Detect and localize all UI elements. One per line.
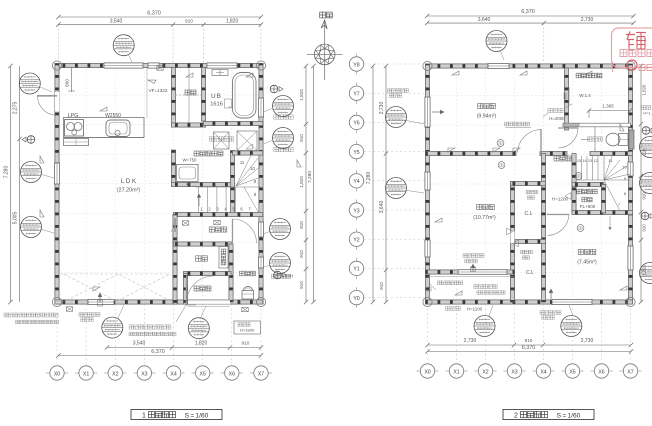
svg-text:800: 800 bbox=[65, 79, 70, 87]
dim 800 kitchen bbox=[65, 68, 76, 92]
plan1 porch floor opening bbox=[188, 300, 230, 307]
plan2 air vent room2 bbox=[540, 289, 561, 319]
svg-text:X6: X6 bbox=[598, 369, 604, 375]
plan2 room1 door opening bbox=[507, 228, 519, 247]
plan2 right wall dark window bbox=[629, 130, 634, 149]
plan1 balcony-above dashed cross bbox=[60, 274, 171, 302]
svg-text:1,820: 1,820 bbox=[642, 84, 647, 96]
plan1 kitchen fridge line bbox=[146, 68, 148, 118]
vent sym right bottom bbox=[274, 271, 293, 279]
plan2 bottom window room2 bbox=[552, 299, 592, 304]
plan1 door mark d bbox=[242, 307, 248, 311]
annotation balloon plan1 top bbox=[113, 35, 134, 56]
svg-text:2,730: 2,730 bbox=[581, 17, 594, 23]
label hall1 bbox=[209, 227, 227, 232]
plan2 circled key room2 bbox=[577, 225, 584, 232]
svg-text:S = 1/60: S = 1/60 bbox=[185, 412, 209, 419]
svg-text:ø: ø bbox=[186, 181, 189, 186]
svg-text:X2: X2 bbox=[112, 371, 118, 377]
svg-text:X5: X5 bbox=[569, 369, 575, 375]
label CL upper bbox=[524, 211, 532, 217]
plan2 stair treads bbox=[576, 156, 630, 211]
svg-text:H=1100: H=1100 bbox=[467, 307, 483, 312]
svg-text:910: 910 bbox=[299, 221, 304, 229]
plan2 stair closet walls bbox=[572, 182, 606, 213]
label closet tiny upper bbox=[526, 190, 538, 199]
plan2 right window room2 bbox=[628, 246, 633, 270]
plan2 left window room3 bbox=[425, 97, 430, 127]
svg-text:LPG: LPG bbox=[68, 113, 79, 119]
vent triangles plan1 bbox=[40, 73, 301, 291]
plan2 X grid bubbles bbox=[417, 304, 642, 378]
plan1 stairs treads bbox=[196, 154, 261, 214]
plan1 top dimensions bbox=[56, 11, 263, 64]
plan1 entrance-hall wall bbox=[174, 242, 233, 246]
plan1 bottom-right grid corner circle bbox=[256, 297, 265, 306]
label joubu-R bbox=[234, 321, 261, 334]
label room1 bbox=[473, 204, 496, 221]
plan2 left window mid bbox=[425, 172, 430, 190]
plan2 stair down arrow bbox=[609, 216, 612, 230]
plan1 leader line porch bbox=[176, 305, 196, 322]
svg-text:C.L: C.L bbox=[526, 270, 534, 276]
label menkoshi 1 bbox=[274, 115, 293, 119]
dim 900 room3 bbox=[563, 87, 570, 105]
plan1 UB left wall bbox=[201, 68, 205, 122]
annotation balloon plan1 right 2 bbox=[273, 128, 294, 149]
svg-text:X4: X4 bbox=[540, 369, 546, 375]
svg-text:X1: X1 bbox=[453, 369, 459, 375]
plan1 kitchen counter bbox=[64, 118, 145, 138]
svg-text:Y4: Y4 bbox=[353, 179, 359, 185]
svg-text:3,640: 3,640 bbox=[478, 17, 491, 23]
plan2 toilet left wall bbox=[594, 127, 596, 151]
label entrance bbox=[196, 256, 208, 261]
annotation balloon plan1 right 4 bbox=[270, 253, 291, 274]
plan1 tiled box bbox=[237, 131, 257, 151]
svg-text:H=1..: H=1.. bbox=[643, 112, 652, 116]
plan2 closet col top bbox=[510, 181, 545, 185]
plan2 top-right grid corner circle bbox=[626, 61, 635, 70]
svg-text:6,370: 6,370 bbox=[147, 11, 161, 17]
plan1 stair numbers bbox=[200, 160, 257, 212]
svg-text:910: 910 bbox=[379, 282, 384, 290]
plan1 left dimensions bbox=[4, 64, 22, 304]
annotation balloon plan2 right 1 bbox=[640, 137, 652, 158]
plan2 bottom-right grid corner circle bbox=[626, 297, 635, 306]
plan1 top wall bbox=[55, 63, 263, 67]
svg-text:Y8: Y8 bbox=[353, 62, 359, 68]
vent sym right top bbox=[270, 85, 283, 93]
plan2 right wall bbox=[628, 64, 632, 304]
plan2 right window stair bbox=[628, 162, 633, 176]
svg-text:2,730: 2,730 bbox=[379, 102, 385, 115]
plan1 LPG stove bbox=[65, 120, 84, 137]
label overflow bbox=[437, 281, 462, 285]
svg-text:S = 1/60: S = 1/60 bbox=[557, 412, 581, 419]
plan1 closet bottom wall bbox=[171, 123, 205, 127]
svg-text:X2: X2 bbox=[482, 369, 488, 375]
plan1 washroom bottom wall bbox=[171, 182, 234, 186]
svg-text:2: 2 bbox=[514, 412, 518, 419]
svg-text:Y0: Y0 bbox=[353, 296, 359, 302]
plan1 right window hall bbox=[258, 222, 263, 237]
svg-text:13: 13 bbox=[588, 159, 592, 163]
svg-text:10: 10 bbox=[250, 166, 255, 171]
annotation balloon plan1 bottom 1 bbox=[102, 317, 123, 338]
plan1 hall-toilet door arc bbox=[233, 219, 257, 243]
plan2 top dimensions bbox=[425, 9, 636, 63]
label balcony guard bbox=[477, 291, 505, 295]
svg-text:7,280: 7,280 bbox=[366, 172, 372, 185]
svg-text:14: 14 bbox=[582, 159, 586, 163]
annotation balloon plan2 top bbox=[486, 31, 507, 52]
annotation balloon plan1 left 3 bbox=[21, 217, 42, 238]
svg-text:6,370: 6,370 bbox=[521, 9, 535, 15]
svg-text:Y1: Y1 bbox=[353, 267, 359, 273]
svg-text:910: 910 bbox=[242, 341, 250, 346]
svg-text:6,370: 6,370 bbox=[522, 345, 536, 351]
svg-text:12: 12 bbox=[593, 159, 597, 163]
plan1 title box bbox=[131, 410, 222, 420]
plan2 title box bbox=[503, 410, 594, 420]
plan2 balcony inner line bbox=[429, 275, 431, 300]
svg-text:X4: X4 bbox=[170, 371, 176, 377]
plan2 top wall bbox=[425, 64, 632, 68]
svg-text:Y3: Y3 bbox=[353, 208, 359, 214]
svg-text:3,540: 3,540 bbox=[133, 341, 146, 347]
svg-text:11: 11 bbox=[240, 160, 245, 165]
plan2 hanger wall bbox=[564, 68, 568, 130]
annotation balloon plan1 bottom 2 bbox=[188, 318, 209, 339]
plan1 left wall bbox=[55, 63, 59, 304]
svg-text:910: 910 bbox=[525, 338, 533, 343]
plan2 air vent room1 bbox=[463, 254, 484, 272]
plan1 X grid bubbles bbox=[46, 304, 272, 380]
plan2 stair bottom wall bbox=[572, 210, 633, 214]
floor grid lines plan 2 bbox=[428, 66, 631, 302]
label mono-iri bbox=[582, 197, 592, 202]
plan1 left wall door opening bbox=[55, 92, 59, 112]
plan2 circled key room1 bbox=[498, 162, 505, 169]
plan2 left vent arrow bbox=[432, 110, 444, 114]
svg-text:VF=1322: VF=1322 bbox=[149, 88, 168, 93]
plan2 room3 bottom wall c bbox=[590, 151, 633, 155]
annotation balloon plan2 right 3 bbox=[640, 263, 652, 284]
svg-text:910: 910 bbox=[299, 134, 304, 142]
svg-text:X0: X0 bbox=[424, 369, 430, 375]
label W2550 bbox=[105, 113, 121, 119]
label balcony waterproof bbox=[4, 313, 59, 324]
svg-text:1,820: 1,820 bbox=[195, 341, 208, 347]
label air press plan2 left bbox=[388, 89, 409, 98]
label closet bbox=[185, 90, 196, 95]
plan1 washbasin bbox=[177, 165, 199, 187]
svg-text:(7.45m²): (7.45m²) bbox=[577, 260, 597, 266]
label room3 bbox=[477, 103, 497, 119]
svg-text:910: 910 bbox=[642, 224, 647, 232]
svg-text:H=1800: H=1800 bbox=[240, 328, 255, 333]
north compass bbox=[307, 12, 343, 80]
svg-text:1,820: 1,820 bbox=[299, 89, 304, 101]
plan1 UB bottom wall bbox=[204, 121, 264, 125]
label porch bbox=[194, 286, 211, 291]
plan1 top window LDK bbox=[104, 63, 143, 68]
vent triangles plan2 bbox=[435, 71, 627, 295]
svg-text:1616: 1616 bbox=[210, 102, 222, 108]
svg-text:6,370: 6,370 bbox=[151, 349, 165, 355]
plan1 LDK-entrance wall bbox=[173, 215, 177, 305]
plan1 kitchen sink bbox=[106, 120, 130, 137]
svg-text:W2550: W2550 bbox=[105, 113, 121, 119]
plan1 vent arrow bottom bbox=[98, 293, 103, 306]
plan1 closet divider bbox=[176, 68, 202, 123]
annotation balloon plan2 bottom 1 bbox=[474, 316, 495, 337]
plan1 shoe cabinet bbox=[219, 247, 228, 269]
plan2 toilet top wall bbox=[563, 123, 631, 127]
label air press 1 bbox=[79, 313, 100, 322]
annotation balloon plan1 right 1 bbox=[273, 96, 294, 117]
plan2 toilet door arc bbox=[558, 128, 578, 148]
svg-text:X7: X7 bbox=[258, 371, 264, 377]
plan1 hall top wall bbox=[174, 212, 264, 216]
svg-text:Y6: Y6 bbox=[353, 121, 359, 127]
plan2 closet col mid bbox=[510, 239, 545, 243]
svg-text:24H: 24H bbox=[285, 274, 293, 279]
label porch waterproof bbox=[129, 325, 176, 336]
plan2 left dimensions bbox=[366, 64, 388, 304]
label FL+800 bbox=[580, 204, 596, 209]
plan1 top-right grid corner circle bbox=[256, 61, 265, 70]
plan1 right dimensions bbox=[299, 64, 316, 304]
label W-750 bbox=[182, 158, 197, 163]
plan1 top window UB bbox=[207, 63, 237, 68]
plan1 UB step bbox=[225, 99, 233, 108]
label floor hatch bbox=[209, 137, 233, 141]
plan2 room3 door arc bbox=[518, 129, 542, 154]
balloon leaders bbox=[38, 50, 573, 319]
floor grid lines plan 1 bbox=[57, 66, 261, 303]
plan1 floor hatch bbox=[214, 132, 230, 149]
svg-text:X7: X7 bbox=[627, 369, 633, 375]
label menkoshi 2 bbox=[274, 147, 293, 151]
label tarekabe bbox=[548, 108, 565, 121]
svg-text:FL+800: FL+800 bbox=[580, 204, 596, 209]
label UB 1616 bbox=[210, 93, 222, 108]
plan2 bottom dimensions bbox=[425, 338, 633, 354]
svg-text:H=1200: H=1200 bbox=[552, 197, 569, 202]
plan1 top-left grid corner circle bbox=[52, 61, 61, 70]
plan2 balcony end wall bbox=[510, 272, 514, 302]
plan2 balcony wall bbox=[425, 270, 514, 277]
plan2 top-left grid corner circle bbox=[423, 61, 432, 70]
label room2 bbox=[577, 249, 597, 265]
plan1 stair up arrow bbox=[197, 194, 201, 206]
label menkoshi 3 bbox=[271, 274, 290, 278]
plan2 room3 bottom wall a bbox=[425, 151, 516, 155]
plan1 door mark e bbox=[157, 66, 163, 70]
plan2 room3 bottom wall b bbox=[540, 151, 567, 155]
label toilet1 bbox=[240, 271, 256, 276]
plan1 right window UB bbox=[258, 98, 263, 117]
svg-text:1: 1 bbox=[142, 412, 146, 419]
plan1 right window toilet bbox=[258, 257, 263, 268]
svg-text:2,275: 2,275 bbox=[13, 102, 19, 115]
plan1 bottom dimensions bbox=[56, 341, 263, 358]
plan2 closet col right wall bbox=[541, 154, 545, 303]
plan1 left window bbox=[54, 163, 59, 184]
label hanger pipe bbox=[576, 73, 602, 78]
plan1 bottom-left grid corner circle bbox=[52, 297, 61, 306]
label closet tiny lower bbox=[521, 250, 533, 259]
plan1 porch left wall bbox=[183, 274, 187, 305]
plan1 porch top wall bbox=[184, 271, 232, 275]
plan1 bottom window LDK bbox=[88, 299, 114, 304]
plan2 left wall bbox=[425, 64, 429, 304]
svg-text:15: 15 bbox=[577, 159, 581, 163]
svg-text:5,005: 5,005 bbox=[13, 212, 19, 225]
annotation balloon plan1 left 2 bbox=[21, 162, 42, 183]
svg-text:X3: X3 bbox=[511, 369, 517, 375]
svg-text:L D K: L D K bbox=[121, 178, 137, 185]
svg-text:Y5: Y5 bbox=[353, 150, 359, 156]
svg-text:3,640: 3,640 bbox=[379, 201, 385, 214]
svg-text:X6: X6 bbox=[229, 371, 235, 377]
plan2 tarekabe leader bbox=[543, 104, 572, 117]
annotation balloon plan2 right 2 bbox=[640, 173, 652, 194]
plan1 stair left wall bbox=[230, 151, 234, 216]
svg-text:2,730: 2,730 bbox=[464, 338, 477, 344]
label joubu right edge bbox=[641, 105, 652, 115]
plan2 bottom wall bbox=[425, 300, 632, 304]
label LDK bbox=[117, 178, 141, 194]
plan1 tiled box triangle bbox=[246, 144, 253, 149]
svg-text:C.L: C.L bbox=[524, 211, 532, 217]
svg-text:900: 900 bbox=[563, 92, 568, 100]
plan1 top window small bbox=[148, 63, 159, 68]
label VF=1322 bbox=[149, 88, 168, 93]
plan1 bathtub bbox=[233, 73, 257, 119]
label balcony bbox=[474, 284, 497, 288]
svg-text:910: 910 bbox=[185, 18, 193, 23]
svg-text:(10.77m²): (10.77m²) bbox=[473, 215, 496, 221]
svg-text:X1: X1 bbox=[83, 371, 89, 377]
svg-text:2,730: 2,730 bbox=[581, 338, 594, 344]
plan1 door mark a bbox=[66, 307, 72, 311]
plan1 washroom left wall bbox=[171, 150, 175, 186]
plan2 bottom-left grid corner circle bbox=[423, 297, 432, 306]
svg-text:H=2000: H=2000 bbox=[549, 116, 565, 121]
svg-text:(9.94m²): (9.94m²) bbox=[477, 114, 497, 120]
svg-text:10: 10 bbox=[622, 165, 627, 170]
annotation balloon plan1 left 1 bbox=[19, 73, 40, 94]
plan1 bottom wall bbox=[55, 300, 263, 304]
plan2 toilet fixture bbox=[581, 133, 628, 146]
label stair-upper bbox=[577, 189, 597, 194]
svg-text:W=750: W=750 bbox=[182, 158, 197, 163]
svg-text:1,365: 1,365 bbox=[602, 104, 614, 109]
plan2 Y grid bubbles bbox=[349, 54, 425, 309]
plan2 left window room1 bbox=[425, 240, 430, 257]
plan2 top window bbox=[488, 63, 509, 68]
svg-text:X0: X0 bbox=[54, 371, 60, 377]
plan2 hall closet door bbox=[565, 193, 571, 200]
label toilet2 bbox=[587, 137, 602, 141]
svg-text:UB: UB bbox=[211, 93, 222, 100]
svg-text:(27.20m²): (27.20m²) bbox=[117, 188, 141, 194]
plan2 balcony drain bbox=[427, 283, 436, 291]
plan2 stair numbers bbox=[577, 158, 628, 207]
svg-text:W:1.4: W:1.4 bbox=[579, 93, 591, 98]
plan1 entrance-toilet wall bbox=[229, 244, 233, 302]
plan1 door mark b bbox=[182, 221, 188, 225]
svg-text:X5: X5 bbox=[200, 371, 206, 377]
plan1 LDK door mark bbox=[171, 218, 175, 232]
svg-text:Y2: Y2 bbox=[353, 238, 359, 244]
red approval stamp bbox=[612, 28, 652, 72]
plan1 UB door fold bbox=[212, 70, 228, 76]
plan1 door mark c bbox=[214, 220, 220, 224]
plan2 closet col left wall bbox=[510, 182, 514, 302]
label tesuri bbox=[446, 306, 483, 311]
label W1.4 bbox=[579, 93, 591, 98]
vent sym plan2 right 1 bbox=[642, 127, 652, 135]
label shoe box bbox=[221, 249, 226, 265]
plan1 right wall bbox=[259, 63, 263, 304]
label H=1200 bbox=[552, 197, 569, 202]
label hall2 bbox=[554, 156, 571, 161]
label CL lower bbox=[526, 270, 534, 276]
svg-text:1,820: 1,820 bbox=[226, 18, 239, 24]
vent sym plan2 right 2 bbox=[641, 212, 652, 220]
plan1 closet left wall bbox=[171, 68, 175, 127]
plan1 left door leaf and arc bbox=[37, 96, 57, 115]
svg-text:7,280: 7,280 bbox=[4, 166, 10, 179]
plan2 circled key room3 bbox=[497, 140, 504, 147]
svg-text:910: 910 bbox=[299, 250, 304, 258]
svg-text:Y7: Y7 bbox=[353, 92, 359, 98]
vent sym left bbox=[22, 136, 35, 144]
plan2 right dimensions bbox=[639, 64, 647, 304]
annotation balloon plan2 left 2 bbox=[386, 178, 407, 199]
svg-text:1,820: 1,820 bbox=[299, 176, 304, 188]
label LPG bbox=[68, 113, 79, 119]
annotation balloon plan2 bottom 2 bbox=[561, 316, 582, 337]
svg-text:X3: X3 bbox=[141, 371, 147, 377]
plan1 entrance door arc bbox=[187, 276, 214, 304]
plan1 stair top wall bbox=[233, 151, 264, 155]
svg-text:3,540: 3,540 bbox=[110, 18, 123, 24]
plan2 room2 door arc bbox=[547, 215, 569, 236]
annotation balloon plan1 right 3 bbox=[270, 219, 291, 240]
label switch base bbox=[504, 122, 531, 127]
dim 1365 bbox=[587, 104, 632, 119]
plan1 kitchen lower cabinet bbox=[64, 139, 89, 146]
svg-text:910: 910 bbox=[299, 281, 304, 289]
plan1 toilet fixture bbox=[242, 286, 254, 299]
label washroom bbox=[194, 151, 223, 156]
plan2 stair left wall bbox=[572, 154, 576, 214]
svg-text:7,280: 7,280 bbox=[307, 171, 313, 183]
annotation balloon plan2 left 1 bbox=[386, 107, 407, 128]
plan2 circled key stair bbox=[575, 173, 582, 180]
